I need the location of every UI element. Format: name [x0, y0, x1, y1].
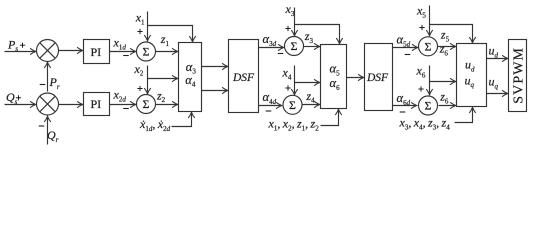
block PI2: [84, 93, 110, 116]
svg-text:PI: PI: [90, 45, 101, 59]
node x6 label: [416, 64, 426, 92]
wire PI2 to S2: [110, 104, 136, 106]
node alpha3d label: [263, 32, 284, 54]
node x1d label: [113, 36, 129, 56]
block DSF2: [365, 44, 393, 111]
svg-text:Σ: Σ: [425, 98, 432, 112]
node Qs input label: [6, 90, 21, 106]
svg-text:Σ: Σ: [289, 98, 296, 112]
wire DSF1 to S4: [259, 105, 282, 107]
wire A56 to DSF2: [347, 77, 364, 79]
wire DSF2 to S6: [393, 105, 417, 107]
block A34 (alpha3 alpha4): [179, 43, 202, 112]
wire Ps input: [5, 51, 36, 53]
node alpha5d label: [397, 33, 411, 55]
svg-text:Σ: Σ: [143, 97, 150, 111]
summing junction S6: [419, 96, 438, 115]
node x2 label: [134, 62, 144, 91]
node Pr feedback label: [40, 75, 60, 91]
block SVPWM: [509, 40, 527, 112]
wire PI1 to S1: [110, 51, 136, 53]
wire Pr into X1: [47, 63, 49, 92]
wire x6 stub into S6: [429, 66, 431, 95]
wire X2 to PI2: [59, 104, 83, 106]
node x4 label: [282, 66, 292, 91]
wire x4 stub into S4: [294, 66, 296, 95]
wire S1 to A34: [156, 51, 178, 53]
wire A34 to DSF1 upper: [202, 66, 228, 68]
svg-text:DSF: DSF: [366, 72, 389, 84]
wire x6 branch to UB left: [430, 81, 456, 83]
wire X1 to PI1: [59, 50, 83, 52]
wire S3 to A56: [304, 46, 320, 48]
block PI1: [84, 40, 110, 64]
wire S6 to UB: [439, 105, 456, 107]
node alpha4d label: [263, 90, 277, 111]
wire xdot into A34 bottom: [172, 113, 192, 127]
wire x3x4z3z4 into UB bottom: [455, 108, 473, 123]
summing junction S2: [137, 95, 156, 114]
wire UB to SVPWM uq: [487, 93, 508, 95]
summing junction S1: [137, 42, 156, 61]
wire S2 to A34: [156, 104, 178, 106]
wire x5 stub into S5: [429, 6, 431, 36]
wire x2 stub into S2: [147, 66, 149, 94]
wire Qs input: [5, 104, 36, 106]
wire S5 to UB: [438, 46, 456, 48]
wire DSF1 to S3: [259, 47, 284, 49]
block DSF1: [229, 40, 259, 113]
wire x4 branch to A56 left: [295, 82, 320, 84]
node alpha6d label: [397, 91, 411, 112]
svg-text:DSF: DSF: [232, 72, 255, 84]
node x1 label: [135, 11, 145, 35]
summing junction S4: [283, 95, 302, 114]
wire x3 stub into S3: [294, 8, 296, 36]
summing junction S3: [285, 37, 304, 56]
node x3 label: [285, 2, 295, 31]
wire A34 to DSF1 lower: [202, 90, 228, 92]
wire S4 to A56: [303, 104, 320, 106]
block UB (ud uq): [457, 44, 487, 107]
wire x5 branch to UB top: [430, 25, 473, 43]
wire x1x2z1z2 into A56 bottom: [321, 110, 339, 126]
node Ps input label: [7, 37, 25, 53]
wire UB to SVPWM ud: [487, 58, 508, 60]
summing junction X1 (P compare): [37, 40, 59, 62]
node x5 label: [416, 4, 426, 31]
wire DSF2 to S5: [393, 47, 418, 49]
wire Qr into X2: [47, 117, 49, 145]
wire x1 stub into S1: [147, 12, 149, 41]
wire x2 branch to A34 left: [148, 78, 178, 80]
summing junction S5: [419, 37, 438, 56]
wire x1 branch to A34 top: [148, 26, 193, 42]
svg-text:Σ: Σ: [291, 39, 298, 53]
svg-text:SVPWM: SVPWM: [512, 47, 527, 104]
svg-text:Σ: Σ: [143, 44, 150, 58]
svg-text:PI: PI: [90, 97, 101, 111]
wire x3 branch to A56 top: [295, 25, 340, 44]
block A56 (alpha5 alpha6): [321, 45, 347, 109]
summing junction X2 (Q compare): [37, 93, 59, 115]
node Qr feedback label: [39, 126, 59, 144]
node x2d label: [113, 88, 129, 109]
svg-text:Σ: Σ: [425, 39, 432, 53]
